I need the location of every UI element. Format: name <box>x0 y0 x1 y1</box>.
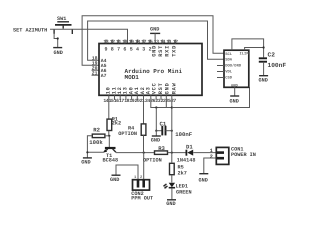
wire A5 to outer top rail to compass SCL <box>82 16 224 65</box>
junction CON2 pin2 <box>143 152 145 154</box>
svg-text:ILIM: ILIM <box>240 51 250 56</box>
connector CON1 <box>210 147 256 165</box>
resistor R4 wire from pin <box>143 95 145 124</box>
wire CON1 pin2 to ground <box>204 158 217 173</box>
top inside pin names <box>105 45 178 57</box>
wire SW1 to Arduino pin <box>50 29 128 43</box>
resistor R4 <box>118 124 146 153</box>
op IC MOD1 Arduino Pro Mini box <box>99 44 202 96</box>
bottom pin stubs and pin numbers <box>103 95 176 104</box>
pin stub A6 <box>92 69 100 71</box>
svg-text:MOD1: MOD1 <box>125 74 140 81</box>
ground below compass <box>230 87 240 104</box>
capacitor C1 cluster: wire pin8 down <box>151 95 172 107</box>
svg-text:DOO/DRD: DOO/DRD <box>225 64 242 69</box>
svg-text:R2: R2 <box>93 126 100 133</box>
compass IC box <box>224 50 249 88</box>
diode D1 <box>177 143 196 163</box>
svg-text:2k7: 2k7 <box>178 171 187 177</box>
junction R1 R2 base <box>108 135 110 137</box>
svg-text:100nF: 100nF <box>175 131 192 138</box>
svg-text:GND: GND <box>165 82 171 94</box>
wire base down <box>108 136 110 148</box>
svg-text:2k2: 2k2 <box>112 120 121 126</box>
svg-text:14: 14 <box>160 39 165 45</box>
svg-text:GND: GND <box>151 137 160 143</box>
svg-text:GND: GND <box>199 177 208 183</box>
svg-text:GND: GND <box>110 177 119 183</box>
svg-text:OPTION: OPTION <box>118 131 137 137</box>
svg-text:GREEN: GREEN <box>176 189 192 195</box>
wire collector rail <box>116 152 155 154</box>
svg-text:10: 10 <box>122 39 127 45</box>
wire compass ILIM top to C2 node <box>245 48 264 51</box>
wire down to C1 left <box>155 108 157 131</box>
resistor R5 <box>170 163 187 176</box>
wire CON2 pin1 to ground <box>116 165 138 180</box>
svg-text:13: 13 <box>154 39 159 45</box>
svg-text:3: 3 <box>142 46 145 52</box>
svg-text:12: 12 <box>110 39 115 45</box>
wire CON2 pin2 down <box>143 153 145 180</box>
junction C1 left top <box>155 106 157 108</box>
svg-text:CSD: CSD <box>225 75 233 80</box>
svg-text:13: 13 <box>103 39 108 45</box>
wire D1 to CON1 pin1 <box>193 152 216 154</box>
svg-text:VCC: VCC <box>151 82 157 94</box>
wire R2 right to node <box>105 135 110 137</box>
svg-text:GND: GND <box>151 45 157 57</box>
svg-text:17: 17 <box>141 39 146 45</box>
svg-text:5: 5 <box>130 46 133 52</box>
svg-text:12: 12 <box>173 39 178 45</box>
svg-text:SDA: SDA <box>225 58 233 63</box>
svg-text:RAW: RAW <box>172 82 178 94</box>
svg-text:POWER IN: POWER IN <box>231 152 256 158</box>
svg-text:GND: GND <box>81 160 90 166</box>
junction C2 node <box>263 46 265 48</box>
junction SW1 ground <box>57 37 59 39</box>
resistor R1 <box>107 117 121 136</box>
wire pin down short <box>160 95 162 99</box>
wire SW1 left contact to ground <box>54 33 58 47</box>
svg-text:C2: C2 <box>268 52 276 59</box>
bottom inside pin names <box>106 82 178 94</box>
svg-text:2: 2 <box>210 154 213 160</box>
ground CON1 pin2 <box>199 174 209 184</box>
resistor R1 wire from pin <box>108 95 110 119</box>
wire A4 to inner top rail to compass SDA <box>88 21 224 60</box>
wire emitter to ground node <box>87 151 104 153</box>
svg-text:21: 21 <box>92 70 98 76</box>
ground C1 <box>151 131 161 144</box>
svg-text:15: 15 <box>148 39 153 45</box>
compass unconnected stubs <box>217 65 224 67</box>
svg-text:1N4148: 1N4148 <box>177 158 196 164</box>
wire compass VIN top to C2 node <box>232 39 264 58</box>
connector CON2 <box>131 175 153 202</box>
ground at R2/T1 <box>81 158 92 166</box>
wire R3 to D1 <box>168 152 187 154</box>
svg-text:8: 8 <box>111 46 114 52</box>
pin stub A7 <box>92 74 100 76</box>
svg-text:RXI: RXI <box>165 45 171 57</box>
capacitor C1 <box>156 120 192 138</box>
svg-text:D1: D1 <box>186 143 193 150</box>
ground CON2 pin1 <box>110 175 121 183</box>
capacitor C2 <box>259 52 287 76</box>
svg-text:BC848: BC848 <box>103 158 119 164</box>
svg-text:GND: GND <box>150 27 159 33</box>
svg-text:VDL: VDL <box>225 69 233 74</box>
junction rail vertical <box>171 152 173 154</box>
ground LED1 <box>166 200 176 207</box>
ground above Arduino (GND supply symbol) <box>150 27 160 44</box>
resistor R2 <box>89 126 105 146</box>
top pin stubs and pin numbers <box>103 39 178 45</box>
svg-text:11: 11 <box>116 39 121 45</box>
junction emitter R2 ground <box>86 151 88 153</box>
svg-text:11: 11 <box>166 39 171 45</box>
svg-text:SET AZIMUTH: SET AZIMUTH <box>13 28 47 34</box>
svg-text:7: 7 <box>117 46 120 52</box>
svg-text:GND: GND <box>259 77 268 83</box>
svg-text:TXD: TXD <box>172 45 178 57</box>
svg-text:100k: 100k <box>89 139 103 146</box>
svg-text:GND: GND <box>166 201 175 207</box>
wire long vertical pin RAW down to rail <box>171 95 173 163</box>
svg-text:6: 6 <box>123 46 126 52</box>
svg-text:9: 9 <box>105 46 108 52</box>
wire rail to compass <box>172 87 250 107</box>
junction C1 right <box>171 130 173 132</box>
wire pin down to rail <box>165 95 167 107</box>
svg-text:19: 19 <box>129 39 134 45</box>
svg-text:RST: RST <box>158 45 164 57</box>
svg-text:18: 18 <box>135 39 140 45</box>
resistor R3 <box>143 145 168 164</box>
svg-text:RST: RST <box>158 82 164 94</box>
svg-text:PPM OUT: PPM OUT <box>131 196 153 202</box>
junction compass rail <box>171 106 173 108</box>
wire R5 to LED <box>171 175 173 183</box>
svg-text:4: 4 <box>136 46 139 52</box>
LED LED1 <box>163 183 191 200</box>
junction C1 left <box>155 130 157 132</box>
ground C2 <box>259 76 269 84</box>
svg-text:SCL: SCL <box>225 52 233 57</box>
svg-text:A7: A7 <box>101 73 107 79</box>
svg-text:GND: GND <box>54 50 63 56</box>
svg-text:GND: GND <box>230 98 239 104</box>
svg-text:100nF: 100nF <box>268 62 287 69</box>
wire R2 left down to emitter node <box>87 136 92 158</box>
ground below SW1 <box>53 48 63 56</box>
svg-text:OPTION: OPTION <box>143 158 162 164</box>
switch SW1 <box>54 22 72 34</box>
transistor T1 <box>103 148 119 164</box>
